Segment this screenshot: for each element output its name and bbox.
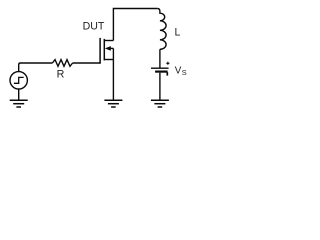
resistor R xyxy=(52,60,72,67)
inductor L xyxy=(157,9,166,50)
wire source to ground xyxy=(112,48,114,99)
transistor DUT (NMOS) xyxy=(100,38,113,64)
svg-text:S: S xyxy=(182,68,187,77)
ground (battery) xyxy=(151,100,169,107)
wire resistor to gate xyxy=(73,62,101,64)
battery VS xyxy=(151,62,169,76)
wire pulse source to ground xyxy=(18,89,20,100)
wire drain to top rail xyxy=(113,9,157,41)
ground (pulse source) xyxy=(10,100,28,107)
label R xyxy=(57,69,65,81)
wire inductor to battery xyxy=(159,49,161,67)
wire source top to resistor xyxy=(19,63,53,72)
wire battery to ground xyxy=(159,73,161,100)
svg-text:L: L xyxy=(175,27,181,39)
pulse source V1 xyxy=(10,72,27,89)
svg-text:R: R xyxy=(57,69,65,81)
svg-text:DUT: DUT xyxy=(83,21,105,33)
ground (transistor source) xyxy=(104,100,122,107)
label L xyxy=(175,27,181,39)
label VS xyxy=(175,65,187,77)
label DUT xyxy=(83,21,105,33)
